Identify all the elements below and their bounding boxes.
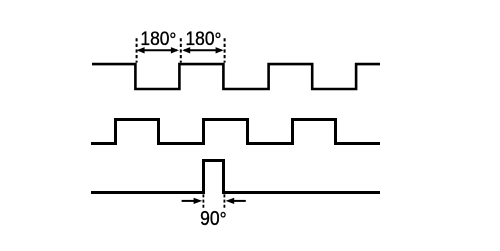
svg-text:180°: 180°	[186, 29, 222, 51]
extension line (dashed) at middle rising edge	[180, 38, 182, 62]
waveform 2 (middle square wave)	[91, 120, 380, 144]
dimension arrow (second half period)	[182, 47, 223, 53]
extension line (dashed) at pulse left edge	[202, 194, 204, 209]
svg-text:90°: 90°	[200, 208, 227, 231]
dimension arrow (first half period)	[137, 47, 179, 53]
extension line (dashed) at second falling edge	[224, 38, 226, 62]
extension line (dashed) at first falling edge	[136, 38, 138, 62]
extension line (dashed) at pulse right edge	[223, 194, 225, 209]
waveform 3 (bottom single pulse)	[91, 161, 380, 193]
waveform 1 (top square wave)	[92, 64, 380, 89]
arrow pointing left at pulse right edge	[226, 198, 246, 204]
arrow pointing right at pulse left edge	[182, 198, 203, 204]
svg-text:180°: 180°	[140, 29, 176, 51]
